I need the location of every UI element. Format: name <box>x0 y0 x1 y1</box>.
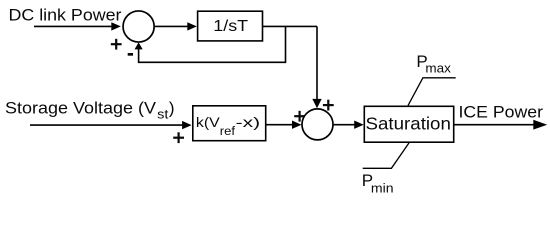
label Storage Voltage (Vst) <box>5 99 175 122</box>
summing junction S1 <box>123 11 154 42</box>
block U3: Saturation <box>364 106 453 142</box>
svg-text:ICE Power: ICE Power <box>459 103 544 122</box>
svg-text:DC link Power: DC link Power <box>9 5 122 24</box>
wire W9: Saturation output, ICE Power <box>455 120 548 130</box>
plus sign at S1 input <box>111 39 122 50</box>
label Pmin <box>362 171 394 196</box>
wire W1: DC link Power input into summing junction S1 <box>34 22 121 30</box>
svg-text:Storage Voltage (V: Storage Voltage (V <box>5 99 157 118</box>
plus sign at k block input <box>173 132 184 143</box>
wire W8: S2 output into Saturation block <box>334 121 364 129</box>
svg-text:st: st <box>157 107 169 122</box>
svg-text:min: min <box>371 181 394 196</box>
wire W4: feedback from node at (285.5,26.4) down, left and up into S1 bottom <box>135 26 286 62</box>
block U2: k(Vref-x) gain <box>193 106 266 141</box>
block U1: 1/sT integrator <box>198 11 263 41</box>
plus sign at S2 left input <box>294 111 305 122</box>
plus sign at S2 top input <box>323 100 334 111</box>
svg-text:-x): -x) <box>236 114 261 130</box>
wire W5: vertical drop from 1/sT output into summing junction S2 top <box>312 26 321 108</box>
svg-text:max: max <box>425 61 451 76</box>
svg-text:k(V: k(V <box>196 114 221 130</box>
svg-text:): ) <box>169 99 175 118</box>
wire W6: storage voltage input into block k(Vref-x) <box>30 121 192 129</box>
wire W7: k block output into summing junction S2 <box>267 121 302 129</box>
summing junction S2 <box>302 109 333 140</box>
minus sign at S1 feedback input <box>128 53 133 56</box>
svg-text:1/sT: 1/sT <box>213 18 248 35</box>
callout line for Pmin limit <box>363 143 409 168</box>
callout line for Pmax limit <box>408 78 456 106</box>
wire W3: 1/sT output horizontal run <box>263 25 317 27</box>
svg-text:ref: ref <box>220 126 236 138</box>
wire W2: S1 output to block 1/sT <box>154 22 197 30</box>
svg-text:Saturation: Saturation <box>366 114 451 134</box>
label Pmax <box>416 52 451 76</box>
